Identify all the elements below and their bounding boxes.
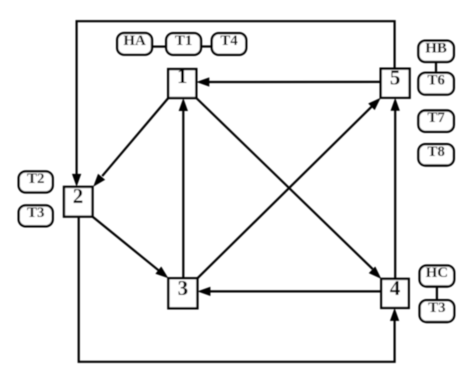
svg-text:T4: T4	[220, 33, 238, 49]
label T3 left	[19, 205, 53, 226]
svg-text:1: 1	[177, 64, 188, 88]
wire HB-T6	[435, 62, 437, 73]
svg-text:T6: T6	[427, 72, 445, 88]
node 2	[64, 184, 93, 217]
label HA	[117, 33, 152, 55]
edge 2->4	[79, 217, 400, 362]
node 4	[381, 276, 408, 308]
node 3	[168, 276, 197, 308]
edge 4->5	[391, 98, 400, 279]
label T8	[418, 144, 453, 166]
svg-text:T1: T1	[175, 33, 193, 49]
svg-text:HC: HC	[426, 265, 449, 281]
label T1	[166, 33, 201, 55]
edge 3->5	[197, 98, 380, 279]
svg-text:HA: HA	[123, 33, 146, 49]
svg-text:4: 4	[390, 276, 401, 300]
edge 5->1	[196, 77, 380, 86]
svg-text:T2: T2	[27, 171, 45, 187]
wire T1-T4	[201, 45, 212, 47]
wire HC-T3	[436, 287, 438, 301]
svg-text:3: 3	[178, 276, 189, 300]
svg-text:5: 5	[390, 65, 401, 89]
edge 2->3	[93, 217, 169, 279]
svg-text:T7: T7	[427, 110, 445, 126]
edge 5->2	[72, 21, 395, 187]
edge 3->1	[179, 98, 188, 278]
edge 1->4	[196, 98, 381, 279]
label T3 right	[420, 300, 455, 322]
wire HA-T1	[152, 45, 166, 47]
node 5	[381, 65, 410, 97]
label T7	[418, 110, 453, 132]
node 1	[168, 64, 196, 98]
label HC	[420, 265, 455, 286]
label T4	[212, 33, 246, 55]
svg-text:HB: HB	[425, 40, 447, 56]
label T2	[19, 171, 53, 192]
svg-text:T8: T8	[427, 144, 445, 160]
edge 1->2	[93, 98, 168, 187]
label T6	[418, 72, 453, 94]
svg-text:T3: T3	[27, 205, 45, 221]
svg-text:2: 2	[73, 184, 84, 208]
label HB	[418, 40, 453, 62]
edge 4->3	[197, 287, 381, 296]
svg-text:T3: T3	[428, 300, 446, 316]
